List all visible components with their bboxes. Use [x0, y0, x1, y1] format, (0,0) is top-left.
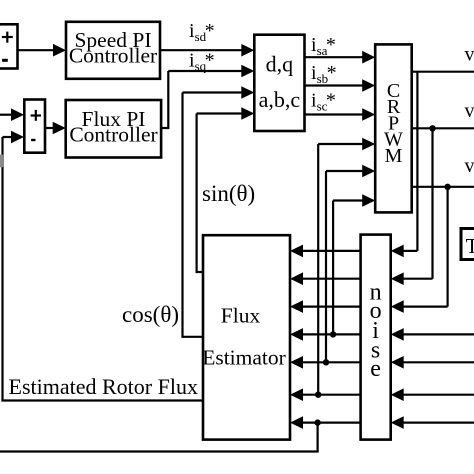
svg-text:Estimator: Estimator — [202, 346, 286, 370]
wire vc feedback drop — [391, 187, 448, 313]
svg-text:a,b,c: a,b,c — [259, 87, 301, 112]
wire row7 tap speed feedback to left edge — [0, 423, 319, 452]
svg-text:e: e — [370, 356, 381, 382]
svg-text:d,q: d,q — [266, 52, 294, 77]
block T (cut off at right edge) — [461, 229, 474, 260]
wire estimated flux feedback (vertical left edge) — [3, 131, 25, 401]
summing junction S2 (flux error) — [24, 100, 45, 153]
svg-text:Flux: Flux — [221, 304, 261, 328]
wire isd* Speed PI to d,q — [160, 44, 254, 57]
svg-text:v: v — [465, 155, 474, 177]
wire row6 tap to CRPWM input a — [318, 138, 375, 395]
wire va output — [412, 71, 474, 73]
wire S1 to Speed PI — [17, 44, 66, 57]
wire cos from Flux Estimator to d,q — [183, 86, 255, 338]
svg-text:T: T — [466, 234, 474, 258]
svg-text:Estimated Rotor Flux: Estimated Rotor Flux — [9, 374, 198, 399]
wire isb* d,q to CRPWM — [305, 79, 376, 92]
svg-text:Controller: Controller — [69, 123, 157, 147]
wire external input row 5 — [391, 356, 474, 369]
wire noise to estimator row 1 — [290, 245, 361, 258]
svg-text:cos(θ): cos(θ) — [122, 302, 179, 327]
wire external input row 4 — [391, 328, 474, 341]
block Flux PI Controller — [66, 100, 161, 158]
wire row4 tap to CRPWM input c — [333, 194, 375, 334]
block Flux Estimator — [202, 235, 290, 439]
junction dot vc — [444, 184, 450, 190]
junction dot row 7 tap — [314, 419, 320, 425]
summing junction S1 (speed error, cut off at left edge) — [0, 24, 18, 68]
wire S2 to Flux PI — [44, 122, 65, 135]
svg-text:v: v — [465, 100, 474, 122]
svg-text:M: M — [385, 145, 403, 167]
svg-text:v: v — [465, 44, 474, 66]
wire noise to estimator row 2 — [290, 272, 361, 285]
wire noise to estimator row 3 — [290, 300, 361, 313]
wire isq* Flux PI to d,q — [161, 65, 254, 129]
wire sin from Flux Estimator to d,q — [197, 107, 255, 273]
junction dot row 6 tap — [315, 392, 321, 398]
wire flux reference input — [0, 108, 24, 121]
wire vb output — [412, 127, 474, 129]
wire noise to estimator row 4 — [290, 328, 361, 341]
wire isa* d,q to CRPWM — [305, 51, 376, 64]
block CRPWM — [375, 44, 412, 212]
wire noise to estimator row 7 — [290, 416, 361, 429]
wire row5 tap to CRPWM input b — [326, 165, 375, 363]
wire noise to estimator row 5 — [290, 356, 361, 369]
block noise — [361, 235, 391, 440]
wire vb feedback drop — [391, 128, 433, 285]
block d,q to a,b,c transform — [254, 35, 304, 131]
wire external input row 6 — [391, 388, 474, 401]
junction dot row 5 tap — [323, 359, 329, 365]
block Speed PI Controller — [66, 22, 160, 79]
wire external input row 7 — [391, 416, 474, 429]
wire noise to estimator row 6 — [290, 388, 361, 401]
svg-text:Controller: Controller — [69, 44, 157, 68]
wire va feedback drop — [391, 72, 418, 258]
svg-text:sin(θ): sin(θ) — [202, 181, 255, 206]
junction dot vb — [429, 125, 435, 131]
junction dot row 4 tap — [330, 331, 336, 337]
wire vc output — [412, 186, 474, 188]
wire estimated rotor flux from estimator to left vertical — [1, 399, 203, 401]
wire isc* d,q to CRPWM — [305, 108, 376, 121]
gray bar fragment at left edge — [0, 155, 3, 168]
